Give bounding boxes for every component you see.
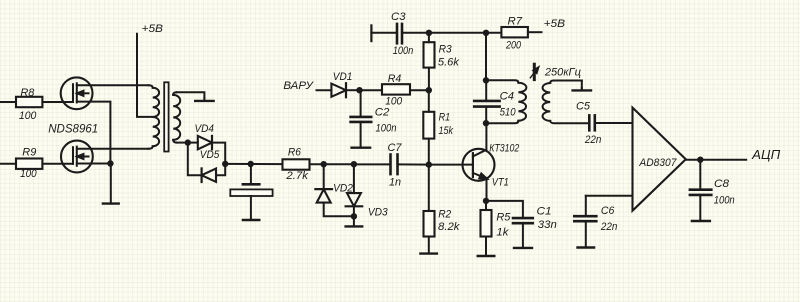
- svg-text:C5: C5: [576, 100, 591, 112]
- wire bottom input: [586, 195, 633, 197]
- node VD3 junction top: [351, 161, 357, 167]
- svg-text:250кГц: 250кГц: [544, 66, 581, 78]
- label R8 value: [19, 87, 37, 122]
- capacitor C2: [351, 90, 372, 147]
- wire top rail: [429, 32, 486, 34]
- capacitor C9 filter (polarized): [230, 164, 272, 220]
- label VD3: [368, 207, 388, 219]
- svg-text:5.6k: 5.6k: [438, 57, 460, 69]
- svg-text:AD8307: AD8307: [639, 157, 677, 169]
- label R6 value: [285, 147, 309, 182]
- ground below Q1/Q2: [103, 164, 119, 204]
- transformer T1 core: [164, 82, 168, 151]
- svg-text:АЦП: АЦП: [751, 147, 781, 162]
- wire Q1 drain to T1 primary top: [77, 85, 153, 88]
- wire T1 secondary bottom: [177, 142, 188, 144]
- svg-text:100n: 100n: [393, 45, 414, 57]
- node VD1 out: [356, 87, 362, 93]
- svg-text:100n: 100n: [714, 195, 735, 207]
- wire output: [686, 159, 746, 161]
- label R4 value: [385, 73, 403, 108]
- svg-text:ВАРУ: ВАРУ: [283, 80, 314, 92]
- svg-text:100: 100: [385, 96, 403, 108]
- resistor R3: [424, 33, 435, 90]
- svg-text:R9: R9: [22, 147, 37, 159]
- resistor R8: [0, 97, 73, 107]
- ground below C6: [578, 246, 595, 248]
- svg-text:+5В: +5В: [544, 18, 566, 30]
- wire T1 secondary top to ground: [177, 92, 205, 98]
- wire T2 column top: [485, 33, 487, 81]
- label R9 value: [20, 147, 37, 181]
- inductor T2 primary winding: [486, 80, 526, 123]
- wire base: [429, 164, 473, 166]
- terminal C3 input: [371, 25, 397, 41]
- resistor R5: [481, 201, 492, 256]
- svg-text:+5В: +5В: [142, 23, 164, 35]
- resistor R7: [501, 27, 541, 37]
- svg-text:C1: C1: [537, 206, 552, 218]
- svg-text:100: 100: [19, 110, 37, 122]
- ground below filter cap: [243, 219, 259, 221]
- resistor R9: [0, 159, 73, 169]
- svg-text:VT1: VT1: [492, 177, 509, 189]
- wire Q2 drain to T1 primary bottom: [77, 146, 153, 149]
- resistor R4: [382, 84, 429, 94]
- label C7 value: [388, 142, 403, 189]
- svg-text:22n: 22n: [584, 134, 601, 146]
- label R5 value: [496, 211, 511, 238]
- svg-text:1k: 1k: [496, 227, 509, 239]
- svg-text:VD3: VD3: [368, 207, 388, 219]
- transformer T1 secondary winding: [173, 92, 180, 142]
- label C5 value: [576, 100, 601, 145]
- label VD5: [200, 149, 220, 161]
- transistor Q1 NDS8961 (MOSFET half A): [61, 77, 93, 109]
- capacitor C7: [354, 155, 429, 175]
- ground below VD3: [346, 216, 363, 226]
- node output: [697, 157, 703, 163]
- node rectifier output: [222, 161, 228, 167]
- node R3 R4 R1: [426, 87, 432, 93]
- ground below R5: [478, 255, 495, 257]
- svg-text:R6: R6: [288, 147, 302, 159]
- label R2 value: [438, 209, 461, 234]
- label C2 value: [375, 106, 397, 134]
- resistor R6: [283, 159, 324, 169]
- wire top rail to R7: [486, 32, 501, 34]
- svg-text:R3: R3: [439, 44, 453, 56]
- label VD1: [333, 71, 353, 83]
- capacitor C4: [474, 80, 499, 123]
- transistor VT1 KT3102: [463, 123, 495, 201]
- label R1 value: [439, 112, 455, 137]
- svg-text:NDS8961: NDS8961: [48, 122, 98, 136]
- node C7 R1 base: [426, 161, 432, 167]
- wire +5B to T1 center tap: [137, 34, 153, 117]
- tuning core with arrow 250kHz: [530, 64, 538, 79]
- label NDS8961: [48, 122, 98, 136]
- svg-text:100n: 100n: [376, 123, 397, 135]
- svg-text:R8: R8: [20, 87, 35, 99]
- inductor T2 secondary winding: [543, 81, 590, 124]
- svg-text:200: 200: [505, 39, 521, 51]
- wire VD1 to R4: [360, 89, 383, 91]
- capacitor C5: [589, 115, 632, 130]
- svg-text:510: 510: [500, 106, 517, 118]
- svg-text:C4: C4: [500, 91, 514, 103]
- svg-text:15k: 15k: [439, 125, 455, 137]
- wire to VD5: [188, 143, 202, 176]
- label R3 value: [438, 44, 460, 69]
- svg-text:R4: R4: [388, 73, 402, 85]
- svg-text:100: 100: [20, 168, 37, 180]
- label VT1: [492, 177, 509, 189]
- node tank top: [483, 77, 489, 83]
- capacitor C6: [574, 196, 596, 248]
- diode VD3 (down): [346, 164, 363, 216]
- svg-text:R2: R2: [438, 209, 452, 221]
- label R7 value: [505, 15, 522, 51]
- node VD4 anode junction: [185, 139, 191, 145]
- transformer T1 primary winding: [153, 88, 159, 147]
- diode VD5: [202, 164, 226, 182]
- ground below R2: [420, 252, 437, 254]
- node emitter: [483, 198, 489, 204]
- capacitor C1: [486, 201, 533, 248]
- svg-text:R5: R5: [496, 211, 511, 223]
- diode VD4: [188, 136, 225, 164]
- label KT3102: [489, 143, 520, 155]
- diode VD1: [317, 83, 360, 97]
- svg-text:C7: C7: [388, 142, 403, 154]
- ground at T2 secondary top: [573, 88, 591, 90]
- node top rail R3: [426, 30, 432, 36]
- label C4 value: [500, 91, 517, 119]
- wire T2 secondary top to ground: [581, 81, 583, 89]
- svg-text:2.7k: 2.7k: [285, 170, 309, 182]
- transistor Q2 NDS8961 (MOSFET half B): [61, 141, 93, 173]
- svg-text:VD1: VD1: [333, 71, 353, 83]
- node top rail T2: [483, 30, 489, 36]
- label BAPY net: [283, 80, 314, 92]
- node filter cap junction: [248, 161, 254, 167]
- label C6 value: [600, 205, 617, 233]
- label AD8307: [639, 157, 677, 169]
- ground below C2: [352, 146, 371, 148]
- svg-text:33n: 33n: [538, 219, 557, 231]
- svg-text:R1: R1: [439, 112, 451, 124]
- svg-text:C8: C8: [714, 178, 730, 190]
- wire Q2 source to node: [77, 163, 111, 165]
- svg-text:1n: 1n: [389, 177, 401, 189]
- capacitor C8: [690, 160, 711, 221]
- wire Q1 source down: [77, 102, 111, 164]
- label ACP net: [751, 147, 781, 162]
- wire rectifier to R6: [225, 163, 282, 165]
- ground at T1 secondary top: [195, 98, 213, 101]
- op-amp U1 AD8307: [633, 108, 686, 211]
- svg-text:8.2k: 8.2k: [438, 221, 461, 233]
- node tank bottom: [483, 120, 489, 126]
- svg-text:C6: C6: [601, 205, 615, 217]
- svg-text:VD4: VD4: [195, 123, 215, 135]
- svg-text:C3: C3: [391, 11, 406, 23]
- node VD2 junction: [321, 161, 327, 167]
- capacitor C3: [397, 24, 429, 43]
- diode VD2 (up): [315, 164, 354, 216]
- resistor R1: [423, 90, 434, 164]
- svg-text:КТ3102: КТ3102: [489, 143, 520, 155]
- label VD2: [333, 182, 353, 194]
- label VD4: [195, 123, 215, 135]
- svg-text:22n: 22n: [600, 221, 617, 233]
- label +5B right: [544, 18, 566, 30]
- resistor R2: [424, 165, 435, 254]
- svg-text:VD5: VD5: [200, 149, 220, 161]
- wire mid rail 1: [324, 163, 354, 165]
- node Q2 source junction: [107, 160, 113, 166]
- label C8 value: [714, 178, 735, 207]
- node VD3 bottom: [351, 213, 357, 219]
- ground below C8: [692, 220, 710, 222]
- svg-text:R7: R7: [508, 15, 523, 27]
- label C1 value: [537, 206, 557, 232]
- ground below C1: [514, 247, 532, 249]
- label 250kHz: [544, 66, 581, 78]
- label C3 value: [391, 11, 413, 57]
- label +5B left: [142, 23, 164, 35]
- svg-text:C2: C2: [375, 106, 390, 118]
